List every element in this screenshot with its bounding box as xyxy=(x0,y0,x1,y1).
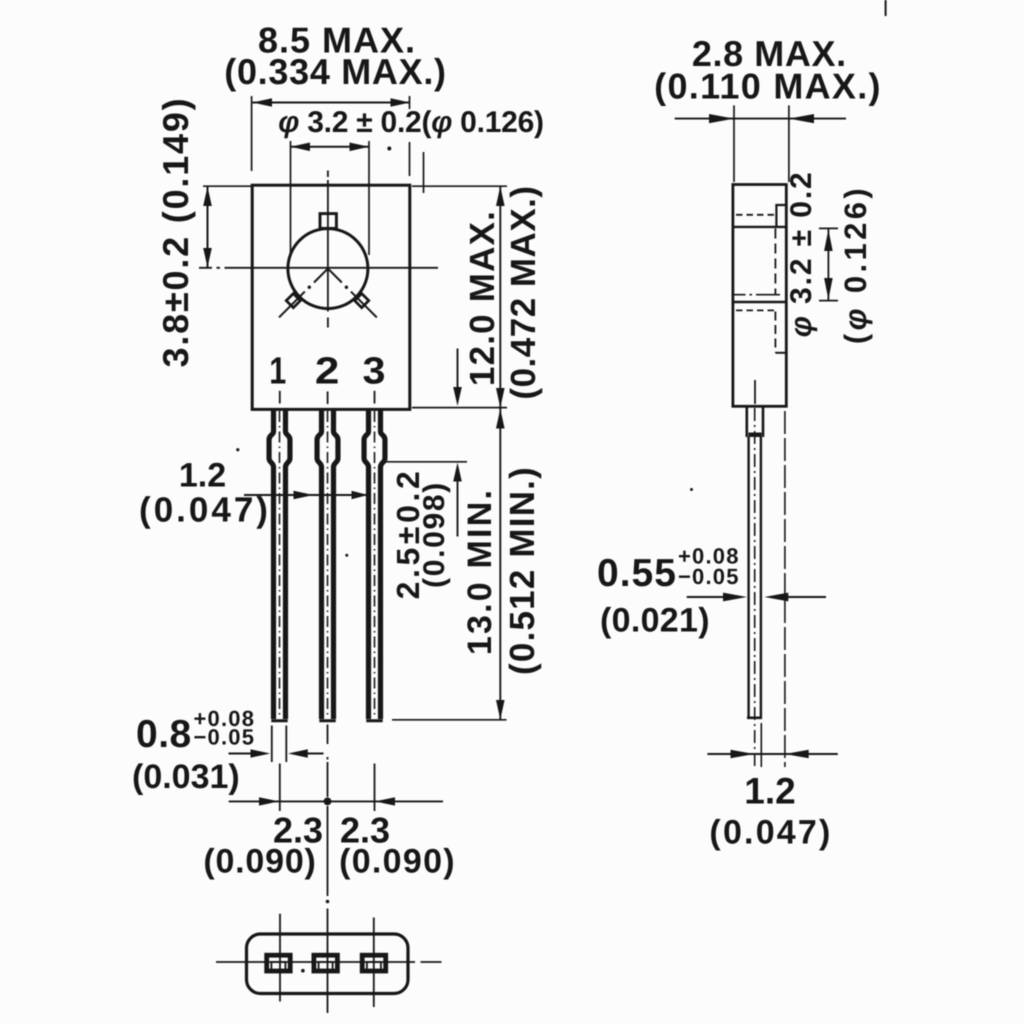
svg-text:(0.021): (0.021) xyxy=(600,602,710,640)
svg-text:0.55: 0.55 xyxy=(597,552,677,595)
svg-text:1.2: 1.2 xyxy=(179,457,226,495)
side body face extension dashed xyxy=(784,411,786,767)
svg-text:(0.047): (0.047) xyxy=(139,491,271,530)
side lead narrow part xyxy=(749,437,761,719)
dim line phi 3.2 side xyxy=(819,228,838,300)
pin 3 center tick xyxy=(374,391,376,404)
svg-text:(0.334 MAX.): (0.334 MAX.) xyxy=(224,51,446,92)
stray dot bottom view xyxy=(301,969,305,973)
side lead centerline xyxy=(754,380,756,404)
svg-text:(0.031): (0.031) xyxy=(132,758,240,796)
side view hidden vertical lower xyxy=(774,312,776,353)
diagonal centerline lower-left xyxy=(314,269,328,283)
side view hidden notch lower xyxy=(775,352,786,354)
bottom view outline xyxy=(247,934,409,994)
svg-text:1: 1 xyxy=(269,351,286,393)
extension lines 2.8 MAX xyxy=(734,105,789,182)
svg-text:(0.098): (0.098) xyxy=(418,481,451,588)
pin 1 center tick xyxy=(279,391,281,404)
lower-right tab xyxy=(355,294,369,308)
dim line phi 3.2 hole xyxy=(291,146,370,148)
side lead tip xyxy=(747,716,762,719)
extension line wide-lead end xyxy=(386,461,467,463)
side lead step xyxy=(749,433,762,438)
dim line 0.55 xyxy=(687,596,826,598)
svg-text:(0.472 MAX.): (0.472 MAX.) xyxy=(504,185,543,399)
extension line package top right xyxy=(412,185,507,187)
side view hole centerline xyxy=(732,294,781,296)
extension line hole left xyxy=(290,141,292,254)
dim line 13.0 MIN xyxy=(499,409,501,720)
diagonal centerline lower-right xyxy=(328,269,342,283)
side view body xyxy=(733,185,786,407)
lead 2 long centerline to bottom view xyxy=(327,725,329,1014)
dim line 2.3 pitch xyxy=(229,800,443,802)
svg-text:12.0 MAX.: 12.0 MAX. xyxy=(463,210,502,386)
dim line 0.8 xyxy=(229,753,324,755)
dim leg 2.5 lower xyxy=(457,480,459,537)
svg-text:0.8: 0.8 xyxy=(136,713,192,756)
svg-text:3.8±0.2 (0.149): 3.8±0.2 (0.149) xyxy=(155,97,196,368)
package body front view xyxy=(252,185,410,409)
extension line package top left xyxy=(203,185,252,187)
dim line 12.0 MAX xyxy=(499,187,501,408)
bottom view pin 3 section xyxy=(362,955,386,971)
dim line 8.5 MAX xyxy=(253,102,411,104)
lead 1 edge extension lines xyxy=(272,726,287,763)
svg-text:1.2: 1.2 xyxy=(744,771,795,812)
bottom view horizontal centerline xyxy=(216,961,442,963)
svg-text:(0.047): (0.047) xyxy=(709,814,832,852)
extension line lead tips right xyxy=(392,719,507,721)
svg-text:φ 3.2 ± 0.2(φ 0.126): φ 3.2 ± 0.2(φ 0.126) xyxy=(278,106,544,139)
svg-text:2: 2 xyxy=(315,351,340,393)
side view top-right notch xyxy=(776,205,786,227)
side lead right edge extension xyxy=(760,723,762,767)
lead 3 center extension xyxy=(374,764,376,812)
svg-text:13.0 MIN.: 13.0 MIN. xyxy=(461,488,499,655)
svg-text:(0.512 MIN.): (0.512 MIN.) xyxy=(503,466,542,675)
svg-text:−0.05: −0.05 xyxy=(678,564,740,589)
lower-left tab xyxy=(286,294,300,308)
dim line 1.2 front xyxy=(244,494,368,496)
svg-text:−0.05: −0.05 xyxy=(194,725,256,750)
lead 2 front xyxy=(317,410,338,720)
side view hidden vertical upper xyxy=(774,229,776,295)
dim line 1.2 side xyxy=(707,753,837,755)
dim line 3.8 vertical xyxy=(207,187,209,268)
extension line hole right xyxy=(368,141,370,255)
side view section line lower xyxy=(733,301,786,303)
stray mark dot near phi text xyxy=(387,147,391,151)
svg-text:(0.090): (0.090) xyxy=(339,843,456,881)
dim leg 2.5 upper xyxy=(457,349,459,390)
vertical centerline front view xyxy=(327,171,329,328)
pin 2 center tick xyxy=(327,392,329,405)
stray dot mid xyxy=(345,554,348,557)
bottom view pin 1 section xyxy=(267,955,291,971)
svg-text:(φ 0.126): (φ 0.126) xyxy=(838,185,873,344)
side lead wide part xyxy=(747,406,763,437)
svg-text:(0.090): (0.090) xyxy=(203,843,316,881)
side view hidden line top xyxy=(736,214,774,216)
mounting hole circle xyxy=(288,229,368,309)
extension line right of 8.5 MAX xyxy=(409,96,411,176)
top index tab xyxy=(320,214,336,229)
lead 1 front xyxy=(269,410,290,720)
stray vertical tick top right xyxy=(885,0,887,16)
lead 1 center extension xyxy=(279,764,281,812)
extension line package bottom right xyxy=(412,407,507,409)
extension line left of 8.5 MAX xyxy=(251,96,253,171)
svg-text:3: 3 xyxy=(363,351,386,393)
bottom view pin3 centerline xyxy=(373,918,375,1008)
stray dot left of lead1 xyxy=(236,448,239,451)
stray vertical tick right of package top xyxy=(423,152,425,193)
dim line 2.8 MAX xyxy=(675,118,846,120)
stray dot near 0.55 xyxy=(690,488,693,491)
side view hidden line lower xyxy=(736,309,774,311)
bottom view pin 2 section xyxy=(314,955,338,971)
svg-text:(0.110 MAX.): (0.110 MAX.) xyxy=(654,66,882,107)
lead 3 front xyxy=(364,410,385,720)
svg-text:φ 3.2 ± 0.2: φ 3.2 ± 0.2 xyxy=(785,170,818,337)
horizontal centerline front view xyxy=(199,267,438,269)
side view section line upper xyxy=(733,226,786,228)
bottom view pin1 centerline xyxy=(279,914,281,1002)
